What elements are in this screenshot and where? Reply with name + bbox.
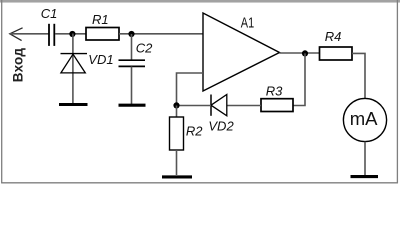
wire R3 to VD2 — [227, 105, 261, 107]
svg-text:R4: R4 — [325, 29, 342, 44]
wire C2 to ground — [131, 67, 133, 105]
ground (C2) — [119, 104, 146, 107]
wire meter to ground — [364, 142, 366, 175]
node C (output junction) — [302, 50, 308, 56]
svg-text:C2: C2 — [136, 41, 153, 56]
wire VD2 to junction — [177, 105, 212, 107]
meter mA — [343, 98, 386, 141]
resistor R2 — [170, 117, 184, 150]
wire inverting input — [177, 73, 204, 106]
wire C2 stem top — [131, 34, 133, 60]
node D (feedback junction) — [173, 102, 179, 108]
ground (meter) — [351, 175, 379, 178]
svg-text:VD2: VD2 — [208, 118, 234, 133]
wire C1 to R1 — [55, 33, 86, 35]
svg-text:VD1: VD1 — [88, 52, 113, 67]
diode VD2 — [211, 95, 227, 116]
wire VD1 stem — [72, 34, 74, 104]
resistor R3 — [261, 99, 293, 112]
wire input to C1 — [10, 33, 49, 35]
svg-text:R3: R3 — [266, 84, 283, 99]
svg-text:A1: A1 — [241, 14, 254, 31]
capacitor C1 — [49, 24, 54, 46]
resistor R1 — [86, 28, 119, 41]
resistor R4 — [320, 47, 353, 60]
node A (junction C1/R1/VD1) — [69, 31, 75, 37]
diode VD1 — [61, 54, 88, 73]
wire op-amp output — [280, 52, 320, 54]
svg-text:mA: mA — [350, 108, 378, 129]
wire R4 to meter — [352, 53, 365, 98]
op-amp A1 — [203, 13, 280, 91]
svg-text:C1: C1 — [41, 6, 58, 21]
border frame — [0, 0, 400, 183]
svg-text:Вход: Вход — [10, 48, 25, 83]
svg-text:R2: R2 — [186, 124, 203, 139]
wire feedback down from output — [293, 53, 305, 105]
ground (R2) — [162, 175, 192, 178]
wire junction to R2 — [176, 106, 178, 118]
wire R2 to ground — [176, 150, 178, 175]
input arrow — [10, 28, 23, 41]
svg-text:R1: R1 — [92, 12, 109, 27]
node B (junction R1/C2) — [128, 31, 134, 37]
ground (VD1) — [59, 103, 88, 106]
wire R1 to op-amp — [119, 33, 203, 35]
capacitor C2 — [119, 60, 146, 66]
